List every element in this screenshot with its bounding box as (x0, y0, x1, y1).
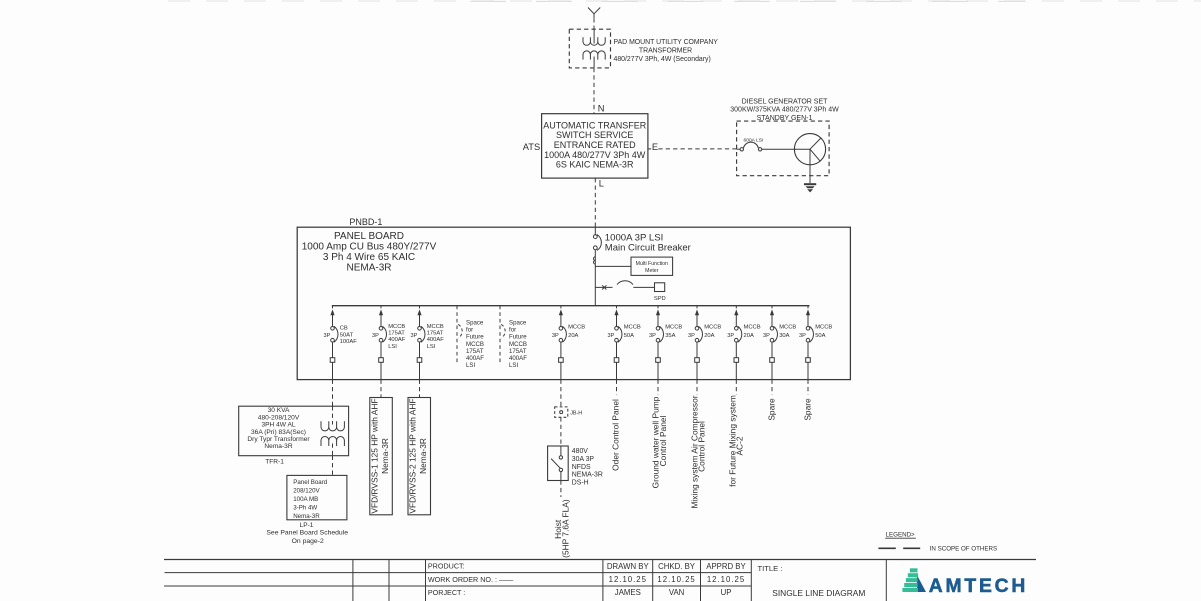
svg-text:DS-H: DS-H (572, 480, 589, 487)
svg-text:APPRD BY: APPRD BY (706, 562, 746, 571)
panel board PNBD-1 enclosure (297, 227, 850, 379)
svg-text:Main Circuit Breaker: Main Circuit Breaker (605, 242, 691, 253)
svg-text:NEMA-3R: NEMA-3R (572, 472, 603, 479)
space for future MCCB (dashed) (499, 306, 501, 365)
wire: terminal to panel edge for MCCB-5 (616, 362, 618, 379)
svg-text:(5HP 7.6A FLA): (5HP 7.6A FLA) (561, 499, 571, 558)
svg-text:3-Ph 4W: 3-Ph 4W (293, 504, 317, 511)
svg-text:MCCB: MCCB (568, 324, 585, 330)
bus connection arrow for MCCB-4 (559, 309, 563, 315)
terminal square for MCCB-8 (734, 358, 739, 363)
wire: dashed load feed ATS down to panel board (594, 178, 596, 227)
svg-text:PANEL BOARD: PANEL BOARD (334, 231, 404, 242)
svg-text:PNBD-1: PNBD-1 (349, 217, 382, 227)
svg-text:3P: 3P (688, 333, 695, 339)
bus connection arrow for MCCB-3 (417, 309, 421, 315)
terminal square for CB-1 (330, 358, 335, 363)
wire: stem into primary winding (593, 29, 595, 43)
svg-text:See Panel Board Schedule: See Panel Board Schedule (266, 530, 348, 537)
svg-text:VAN: VAN (669, 588, 684, 597)
bus connection arrow for MCCB-10 (806, 309, 810, 315)
wire: terminal to panel edge for MCCB-4 (560, 362, 562, 379)
breaker MCCB-8 3P (735, 327, 739, 331)
svg-text:MCCB: MCCB (624, 324, 641, 330)
svg-text:Space: Space (509, 320, 527, 327)
wire: dashed TFR-1 to panel LP-1 (332, 456, 334, 476)
svg-text:35A: 35A (665, 333, 675, 339)
bus connection arrow for MCCB-5 (614, 309, 618, 315)
svg-text:Control Panel: Control Panel (697, 421, 707, 472)
svg-text:LSI: LSI (427, 344, 436, 350)
svg-text:3P: 3P (799, 333, 806, 339)
svg-text:SPD: SPD (654, 296, 666, 302)
wire: tap to SPD with disconnect (595, 286, 612, 288)
svg-text:LEGEND>: LEGEND> (886, 531, 915, 538)
wire: bus stub for MCCB-6 (657, 306, 659, 309)
terminal square for MCCB-7 (695, 358, 700, 363)
svg-text:NFDS: NFDS (572, 464, 591, 471)
generator GEN-1 enclosure (dashed) (737, 121, 830, 176)
wire: MCCB-3 to terminal (419, 342, 421, 358)
svg-text:for: for (466, 327, 473, 334)
svg-text:3P: 3P (649, 333, 656, 339)
wire: dashed drop to load (735, 380, 737, 395)
wire: MCCB-8 to terminal (735, 342, 737, 358)
svg-text:Oder Control Panel: Oder Control Panel (611, 399, 621, 471)
svg-text:Nema-3R: Nema-3R (264, 443, 292, 450)
svg-text:E: E (652, 142, 658, 152)
svg-text:MCCB: MCCB (388, 324, 405, 330)
wire: dashed line transformer to ATS normal terminal (593, 68, 595, 114)
svg-text:Spare: Spare (802, 398, 812, 421)
wire: MCCB-7 to terminal (696, 342, 698, 358)
wire: stem into TFR-1 primary (dashed) (332, 406, 334, 424)
svg-text:480V: 480V (572, 448, 588, 455)
svg-text:175AT: 175AT (388, 331, 405, 337)
ATS automatic transfer switch box (542, 114, 648, 178)
svg-text:12.10.25: 12.10.25 (707, 575, 745, 584)
svg-text:3P: 3P (763, 333, 770, 339)
svg-text:400AF: 400AF (388, 337, 406, 343)
terminal square for MCCB-4 (559, 358, 564, 363)
wire: terminal to panel edge for MCCB-9 (771, 362, 773, 379)
svg-text:30 KVA: 30 KVA (268, 407, 290, 414)
svg-text:50AT: 50AT (340, 332, 354, 338)
svg-text:3PH 4W AL: 3PH 4W AL (261, 422, 295, 429)
breaker MCCB-6 3P (656, 327, 660, 331)
wire: CB-1 to terminal (332, 342, 334, 358)
CT symbol for meter tap (593, 257, 595, 264)
svg-text:175AT: 175AT (509, 348, 527, 355)
wire: main panel bus 1000A (332, 305, 810, 307)
svg-text:SWITCH SERVICE: SWITCH SERVICE (556, 130, 633, 140)
svg-text:DRAWN BY: DRAWN BY (607, 562, 650, 571)
wire: dashed DS-H to hoist (560, 481, 562, 498)
wire: terminal to panel edge for MCCB-8 (735, 362, 737, 379)
svg-text:MCCB: MCCB (509, 341, 527, 348)
wire: MCCB-5 to terminal (616, 342, 618, 358)
svg-text:Space: Space (466, 320, 484, 327)
svg-text:Future: Future (509, 334, 527, 341)
breaker: 1000A 3P LSI main circuit breaker (594, 227, 596, 235)
svg-text:AC-2: AC-2 (735, 436, 745, 455)
svg-text:CHKD. BY: CHKD. BY (658, 562, 696, 571)
svg-text:6S KAIC NEMA-3R: 6S KAIC NEMA-3R (556, 160, 634, 170)
breaker MCCB-9 3P (770, 327, 774, 331)
wire: MCCB-9 to terminal (771, 342, 773, 358)
svg-text:ENTRANCE RATED: ENTRANCE RATED (554, 140, 636, 150)
svg-text:DIESEL GENERATOR SET: DIESEL GENERATOR SET (742, 98, 829, 105)
terminal square for MCCB-10 (806, 358, 811, 363)
wire: dashed drop to load (696, 380, 698, 395)
svg-text:TITLE :: TITLE : (758, 564, 783, 573)
svg-text:TFR-1: TFR-1 (265, 458, 284, 465)
svg-text:VFD/RVSS-1 125 HP with AHF: VFD/RVSS-1 125 HP with AHF (369, 398, 379, 513)
svg-text:MCCB: MCCB (427, 324, 444, 330)
svg-text:SINGLE LINE DIAGRAM: SINGLE LINE DIAGRAM (772, 588, 865, 598)
svg-text:50A: 50A (815, 333, 825, 339)
ground symbol (804, 183, 816, 185)
wire: terminal to panel edge for MCCB-10 (807, 362, 809, 379)
svg-text:400AF: 400AF (466, 355, 484, 362)
svg-text:3P: 3P (727, 333, 734, 339)
wire: dashed drop from wye to utility transformer (593, 18, 595, 29)
logo: AMTECH pyramid teal steps (910, 568, 918, 572)
svg-text:50A: 50A (624, 333, 634, 339)
terminal square for MCCB-6 (656, 358, 661, 363)
wire: dashed drop MCCB-2 to VFD/RVSS-1 (380, 380, 382, 398)
wire: generator neutral down to ground (809, 149, 811, 183)
bus connection arrow for MCCB-8 (734, 309, 738, 315)
wire: tap to multi function meter (595, 265, 631, 267)
terminal square for MCCB-3 (417, 358, 422, 363)
svg-text:JB-H: JB-H (570, 411, 582, 417)
svg-text:175AT: 175AT (466, 348, 484, 355)
wire: dashed drop MCCB-3 to VFD/RVSS-2 (419, 380, 421, 398)
disconnect switch DS-H box (548, 446, 569, 481)
svg-text:CB: CB (340, 326, 348, 332)
svg-text:AMTECH: AMTECH (929, 576, 1028, 597)
wire: terminal to panel edge for MCCB-2 (380, 362, 382, 379)
meter M1 multi function meter box (631, 257, 673, 275)
svg-text:JAMES: JAMES (615, 588, 641, 597)
svg-text:100AF: 100AF (340, 339, 358, 345)
generator GEN-1 circle symbol (794, 134, 825, 165)
wire: breaker to generator (762, 148, 810, 150)
svg-text:600A LSI: 600A LSI (744, 138, 764, 144)
wire: dashed JB-H to DS-H (560, 417, 562, 446)
wire: terminal to panel edge for MCCB-7 (696, 362, 698, 379)
wire: terminal to panel edge for MCCB-6 (657, 362, 659, 379)
breaker CB-1 3P (331, 327, 335, 331)
terminal square for MCCB-5 (614, 358, 619, 363)
drive VFD/RVSS-2 box (408, 398, 431, 515)
svg-text:Control Panel: Control Panel (658, 415, 668, 466)
svg-text:12.10.25: 12.10.25 (657, 575, 695, 584)
wire: dashed drop CB-1 to TFR-1 (332, 380, 334, 407)
transformer TFR-1 primary winding (321, 421, 344, 431)
node: utility wye source symbol (588, 8, 600, 19)
wire: bus stub for MCCB-3 (419, 306, 421, 309)
svg-text:400AF: 400AF (509, 355, 527, 362)
bus connection arrow for MCCB-2 (379, 309, 383, 315)
wire: dashed emergency feed from ATS to generator (658, 148, 736, 150)
svg-text:for: for (509, 327, 516, 334)
svg-text:3 Ph 4 Wire 65 KAIC: 3 Ph 4 Wire 65 KAIC (323, 252, 415, 263)
svg-text:3P: 3P (552, 333, 559, 339)
svg-text:WORK ORDER NO. : ——: WORK ORDER NO. : —— (428, 575, 514, 584)
svg-text:PORJECT :: PORJECT : (428, 588, 465, 597)
svg-text:NEMA-3R: NEMA-3R (346, 263, 391, 274)
svg-text:3P: 3P (410, 333, 417, 339)
svg-text:20A: 20A (568, 333, 578, 339)
title block vertical dividers (352, 560, 354, 601)
svg-text:400AF: 400AF (427, 337, 445, 343)
wire: bus stub for MCCB-4 (560, 306, 562, 309)
svg-text:3P: 3P (323, 333, 330, 339)
svg-text:Dry Typr Transformer: Dry Typr Transformer (247, 436, 310, 443)
faint cut-off sheet border at top edge (168, 0, 1201, 2)
svg-text:300KW/375KVA 480/277V 3Ph 4W: 300KW/375KVA 480/277V 3Ph 4W (730, 107, 839, 114)
title block middle line 2 (164, 585, 751, 587)
svg-text:30A 3P: 30A 3P (572, 456, 595, 463)
svg-text:Nema-3R: Nema-3R (418, 438, 428, 474)
switch inside DS-H (560, 446, 562, 456)
svg-text:20A: 20A (704, 333, 714, 339)
panel board LP-1 box (287, 475, 347, 519)
wire: dashed drop to load (616, 380, 618, 395)
svg-text:20A: 20A (744, 333, 754, 339)
wire: dashed drop MCCB-4 to JB-H (560, 380, 562, 407)
svg-text:L: L (599, 178, 604, 188)
svg-text:36A (Pri) 83A(Sec): 36A (Pri) 83A(Sec) (251, 429, 306, 436)
surge protective device SPD box (655, 283, 665, 292)
svg-text:VFD/RVSS-2 125 HP with AHF: VFD/RVSS-2 125 HP with AHF (408, 398, 418, 513)
svg-text:MCCB: MCCB (744, 324, 761, 330)
svg-text:480/277V 3Ph, 4W (Secondary): 480/277V 3Ph, 4W (Secondary) (614, 56, 711, 63)
svg-text:TRANSFORMER: TRANSFORMER (639, 47, 692, 54)
wire: bus stub for MCCB-8 (735, 306, 737, 309)
svg-text:Spare: Spare (766, 398, 776, 421)
svg-text:PRODUCT:: PRODUCT: (428, 562, 465, 571)
breaker MCCB-5 3P (615, 327, 619, 331)
svg-text:30A: 30A (779, 333, 789, 339)
bus connection arrow for MCCB-9 (770, 309, 774, 315)
svg-text:Future: Future (466, 334, 484, 341)
bus connection arrow for CB-1 (330, 309, 334, 315)
breaker MCCB-4 3P (559, 327, 563, 331)
wire: bus stub for MCCB-2 (380, 306, 382, 309)
svg-text:Nema-3R: Nema-3R (380, 438, 390, 474)
breaker 600A LSI in generator enclosure (737, 148, 741, 150)
svg-text:Meter: Meter (645, 268, 659, 274)
terminal square for MCCB-9 (770, 358, 775, 363)
svg-text:MCCB: MCCB (815, 324, 832, 330)
svg-text:UP: UP (721, 588, 732, 597)
wire: bus stub for MCCB-9 (771, 306, 773, 309)
transformer TFR-1 box (239, 406, 349, 456)
svg-text:MCCB: MCCB (466, 341, 484, 348)
bus connection arrow for MCCB-7 (695, 309, 699, 315)
space for future MCCB (dashed) (456, 306, 458, 365)
svg-text:MCCB: MCCB (665, 324, 682, 330)
drive VFD/RVSS-1 box (370, 398, 393, 515)
wire: stub ATS to E (648, 148, 651, 150)
title block middle line 1 (165, 572, 752, 574)
terminal square for MCCB-2 (379, 358, 384, 363)
breaker MCCB-7 3P (695, 327, 699, 331)
svg-text:PAD MOUNT UTILITY COMPANY: PAD MOUNT UTILITY COMPANY (614, 39, 719, 46)
svg-text:MCCB: MCCB (704, 324, 721, 330)
svg-text:Nema-3R: Nema-3R (293, 513, 320, 520)
wire: terminal to panel edge for CB-1 (332, 362, 334, 379)
wire: stem out of secondary winding (593, 57, 595, 68)
wire: bus stub for MCCB-10 (807, 306, 809, 309)
svg-text:Multi Function: Multi Function (636, 261, 668, 267)
svg-text:1000 Amp CU Bus 480Y/277V: 1000 Amp CU Bus 480Y/277V (302, 242, 437, 253)
wire: terminal to panel edge for MCCB-3 (419, 362, 421, 379)
logo: AMTECH pyramid shadow (917, 575, 926, 592)
wire: MCCB-10 to terminal (807, 342, 809, 358)
transformer T-UTIL primary winding (583, 37, 605, 45)
svg-text:1000A 480/277V 3Ph 4W: 1000A 480/277V 3Ph 4W (544, 150, 646, 160)
svg-text:LSI: LSI (466, 362, 475, 369)
svg-text:12.10.25: 12.10.25 (609, 575, 647, 584)
svg-text:Panel Board: Panel Board (293, 479, 328, 486)
breaker MCCB-3 3P (418, 327, 422, 331)
transformer TFR-1 secondary winding (321, 436, 344, 446)
wire: bus stub for MCCB-5 (616, 306, 618, 309)
legend dashed line sample (878, 547, 895, 549)
svg-text:On page-2: On page-2 (292, 538, 324, 545)
svg-text:LP-1: LP-1 (300, 522, 314, 529)
svg-text:N: N (598, 103, 605, 113)
wire: dashed drop to load (807, 380, 809, 395)
bus connection arrow for MCCB-6 (656, 309, 660, 315)
junction box JB-H (dashed) (555, 407, 568, 417)
wire: MCCB-6 to terminal (657, 342, 659, 358)
svg-text:175AT: 175AT (427, 331, 444, 337)
wire: bus stub for MCCB-7 (696, 306, 698, 309)
wire: bus stub for CB-1 (332, 306, 334, 309)
svg-text:LSI: LSI (509, 362, 518, 369)
transformer T-UTIL secondary winding (583, 51, 605, 60)
wire: dashed drop to load (657, 380, 659, 395)
transformer T-UTIL enclosure (dashed) (569, 29, 610, 68)
wire: main breaker down to bus (594, 250, 596, 306)
breaker MCCB-2 3P (379, 327, 383, 331)
svg-text:MCCB: MCCB (779, 324, 796, 330)
svg-text:LSI: LSI (388, 344, 397, 350)
wire: MCCB-2 to terminal (380, 342, 382, 358)
svg-text:AUTOMATIC TRANSFER: AUTOMATIC TRANSFER (543, 120, 647, 130)
title block top border line (164, 559, 1036, 561)
svg-text:ATS: ATS (523, 142, 540, 152)
svg-text:3P: 3P (372, 333, 379, 339)
wire: stem out of TFR-1 secondary (dashed) (332, 444, 334, 456)
breaker MCCB-10 3P (806, 327, 810, 331)
svg-text:3P: 3P (607, 333, 614, 339)
wire: dashed drop to load (771, 380, 773, 395)
wire: MCCB-4 to terminal (560, 342, 562, 358)
svg-text:IN SCOPE OF OTHERS: IN SCOPE OF OTHERS (930, 546, 997, 553)
svg-text:100A MB: 100A MB (293, 496, 318, 503)
svg-text:480-208/120V: 480-208/120V (258, 414, 300, 421)
svg-text:208/120V: 208/120V (293, 487, 320, 494)
